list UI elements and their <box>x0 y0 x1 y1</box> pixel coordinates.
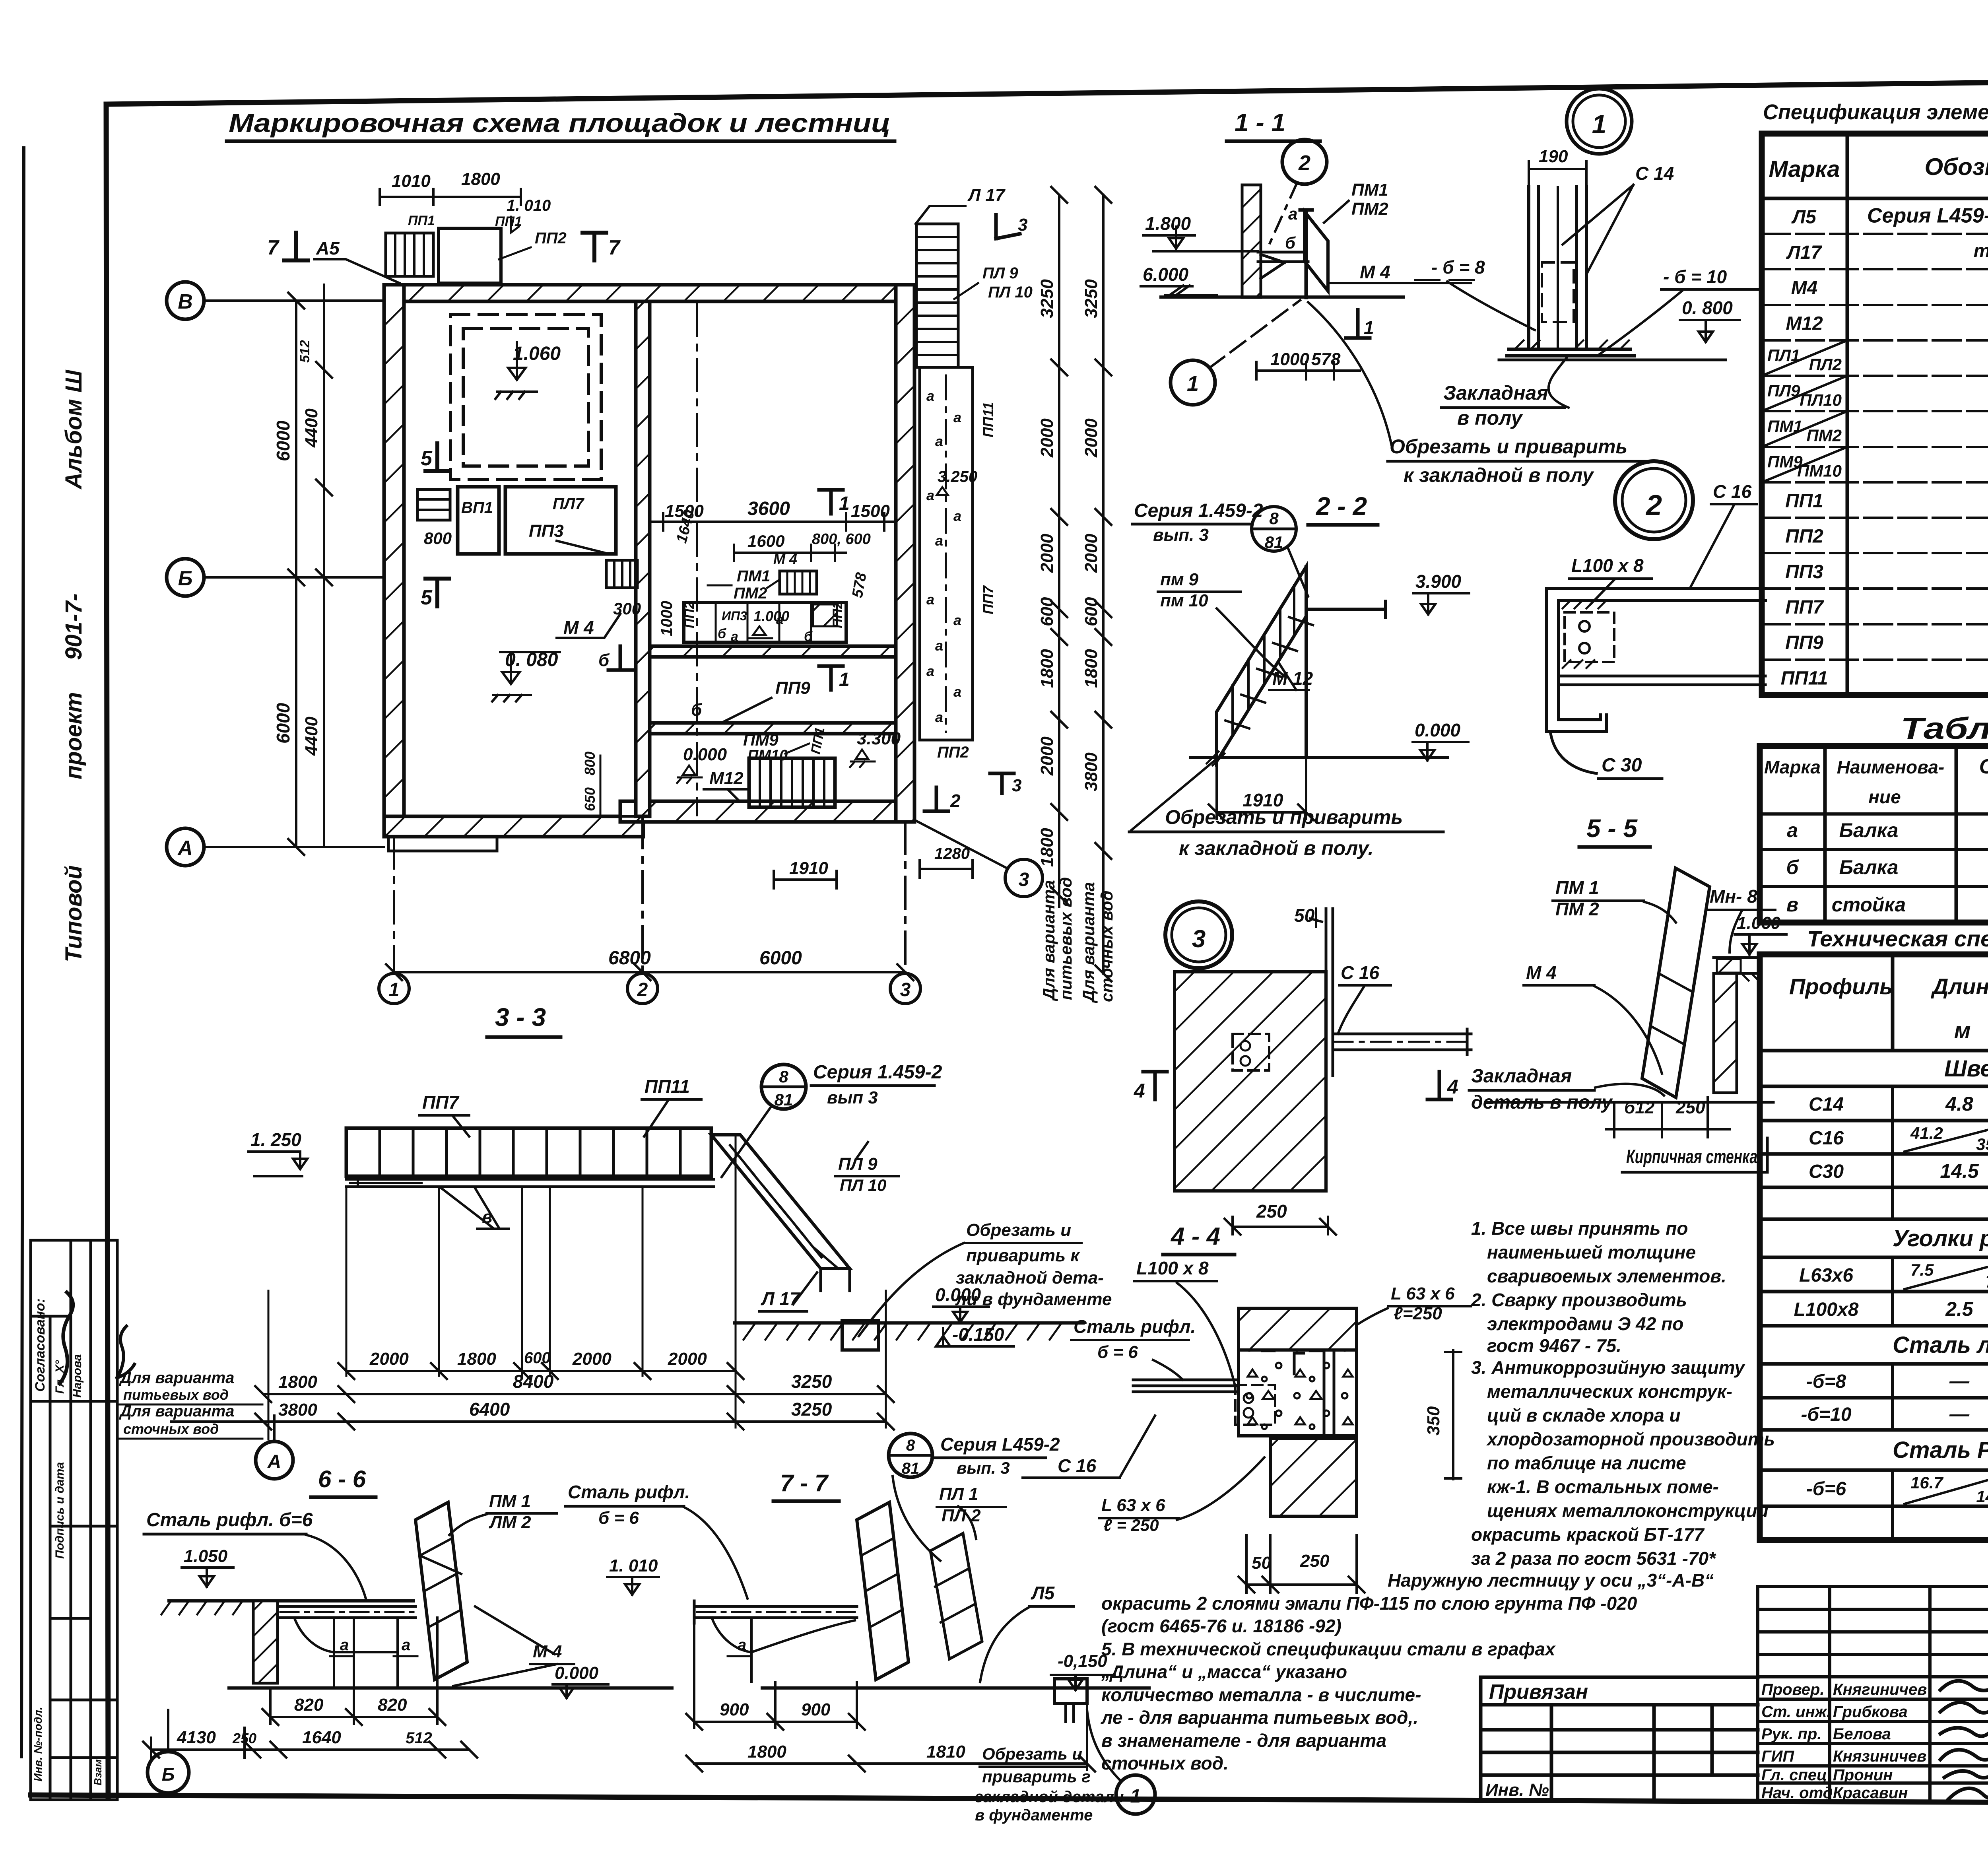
svg-text:а: а <box>738 1636 746 1654</box>
spec table frame <box>1762 134 1988 695</box>
right dim chains <box>1051 187 1067 907</box>
node circle 1 <box>1567 89 1632 154</box>
channel section 5-5 <box>1547 589 1765 732</box>
svg-text:1.000: 1.000 <box>753 608 789 624</box>
svg-text:5. В технической спецификации: 5. В технической спецификации стали в гр… <box>1101 1639 1556 1659</box>
svg-text:Л 17: Л 17 <box>967 185 1006 205</box>
svg-text:1910: 1910 <box>789 859 828 878</box>
bolt box node3 <box>1233 1034 1269 1070</box>
baseline 6-6 <box>229 1686 672 1690</box>
svg-text:С 16: С 16 <box>1341 962 1380 983</box>
svg-text:L100 х 8: L100 х 8 <box>1136 1258 1209 1278</box>
svg-text:3250: 3250 <box>1081 279 1101 318</box>
svg-text:2000: 2000 <box>1037 736 1057 776</box>
concrete block hatched node3 <box>1175 972 1326 1191</box>
grid circle B 6-6 <box>148 1752 189 1793</box>
svg-text:Нарова: Нарова <box>71 1354 84 1398</box>
svg-text:4400: 4400 <box>302 717 321 756</box>
svg-text:4130: 4130 <box>177 1728 216 1747</box>
svg-text:3.900: 3.900 <box>1415 571 1462 592</box>
svg-text:190: 190 <box>1539 147 1568 166</box>
dim row3 3-3 <box>171 1414 894 1430</box>
platform row boxes <box>684 602 846 642</box>
svg-text:1800: 1800 <box>461 169 500 189</box>
svg-text:- б = 10: - б = 10 <box>1663 266 1727 287</box>
bolt box 4-4 <box>1235 1385 1275 1425</box>
svg-text:б: б <box>1285 233 1296 252</box>
svg-text:Сталь рифл. б=6: Сталь рифл. б=6 <box>146 1509 313 1531</box>
svg-text:81: 81 <box>902 1460 920 1477</box>
svg-text:Сталь рифл.: Сталь рифл. <box>568 1482 690 1502</box>
svg-text:2000: 2000 <box>1037 418 1057 458</box>
svg-text:окрасить краской БТ-177: окрасить краской БТ-177 <box>1471 1524 1705 1545</box>
svg-text:ПП9: ПП9 <box>775 678 810 698</box>
svg-text:300: 300 <box>613 599 641 618</box>
svg-text:8: 8 <box>779 1067 788 1086</box>
svg-text:сточных вод: сточных вод <box>123 1421 219 1437</box>
svg-text:ПП1: ПП1 <box>495 214 522 229</box>
svg-text:С 30: С 30 <box>1602 755 1642 776</box>
svg-text:6.000: 6.000 <box>1143 264 1189 285</box>
svg-text:ПП1: ПП1 <box>1785 490 1823 511</box>
railing panels 7-7 <box>857 1502 909 1680</box>
svg-text:600: 600 <box>524 1349 551 1367</box>
svg-text:пм 10: пм 10 <box>1160 591 1208 610</box>
svg-text:м: м <box>1954 1018 1971 1043</box>
svg-text:820: 820 <box>294 1695 324 1715</box>
svg-text:закладной детали: закладной детали <box>975 1788 1124 1806</box>
svg-text:ПМ10: ПМ10 <box>1797 462 1842 480</box>
svg-text:в знаменателе - для вариант: в знаменателе - для варианта <box>1101 1730 1386 1751</box>
svg-text:0.000: 0.000 <box>935 1284 981 1305</box>
svg-text:ГИП: ГИП <box>1761 1748 1794 1765</box>
dims row2 6-6 <box>143 1728 477 1758</box>
baseline 7-7 <box>762 1686 1149 1690</box>
seriya circle 7-7 <box>889 1433 932 1477</box>
svg-text:3.300: 3.300 <box>857 729 901 748</box>
svg-text:Обрезать и: Обрезать и <box>966 1220 1071 1240</box>
svg-text:0.000: 0.000 <box>683 745 727 764</box>
svg-text:Сталь рифл.: Сталь рифл. <box>1074 1316 1196 1337</box>
svg-text:1: 1 <box>389 979 400 1000</box>
svg-text:578: 578 <box>1311 350 1341 369</box>
stair flight 2-2 <box>1217 567 1306 761</box>
corner angle in concrete <box>1294 1353 1304 1374</box>
stamp boxes column lower-left <box>31 1240 117 1800</box>
svg-text:ПП2: ПП2 <box>535 229 567 247</box>
section flag 1 in 1-1 <box>1346 310 1370 338</box>
svg-text:сваривоемых элементов.: сваривоемых элементов. <box>1487 1266 1726 1286</box>
callout circle 3 <box>1005 859 1043 897</box>
svg-text:С 14: С 14 <box>1635 163 1674 184</box>
svg-text:512: 512 <box>297 340 313 363</box>
svg-text:Гл. спец: Гл. спец <box>1761 1766 1827 1784</box>
svg-text:А: А <box>177 837 193 860</box>
svg-text:а: а <box>340 1636 349 1654</box>
dim 1280 <box>920 860 973 878</box>
svg-text:6800: 6800 <box>608 948 651 969</box>
svg-text:Техническая спецификация с: Техническая спецификация стали 3Ст 3 кп … <box>1807 926 1988 951</box>
svg-text:600: 600 <box>1081 597 1101 626</box>
svg-text:б12: б12 <box>1624 1098 1655 1117</box>
svg-text:8400: 8400 <box>513 1371 554 1392</box>
callout circle 2 <box>1282 140 1327 184</box>
svg-text:М 4: М 4 <box>1526 962 1557 983</box>
railing panel detail <box>1642 868 1710 1097</box>
svg-text:2: 2 <box>950 791 961 811</box>
svg-text:Л5: Л5 <box>1791 207 1817 228</box>
axes dash-dot verticals <box>394 304 905 973</box>
interior stair at wall <box>606 560 637 588</box>
svg-text:ЛМ 2: ЛМ 2 <box>489 1513 531 1532</box>
gussets 7-7 <box>712 1618 855 1682</box>
small stair left edge <box>417 489 450 520</box>
foundation box 3-3 <box>842 1321 879 1350</box>
node circle 3 <box>1165 901 1232 968</box>
svg-text:а: а <box>926 663 934 679</box>
svg-text:ПЛ 10: ПЛ 10 <box>988 284 1033 301</box>
post channels node 1 <box>1529 187 1586 349</box>
svg-text:0.000: 0.000 <box>555 1663 599 1683</box>
sheet frame bottom edge <box>31 1795 1988 1804</box>
long leader to note <box>1308 302 1392 445</box>
svg-text:3: 3 <box>1018 215 1027 235</box>
svg-text:1800: 1800 <box>1037 828 1057 867</box>
svg-text:-б=10: -б=10 <box>1801 1404 1851 1425</box>
svg-text:М 4: М 4 <box>773 551 797 567</box>
svg-text:Профиль: Профиль <box>1789 974 1893 999</box>
svg-text:6000: 6000 <box>273 703 293 744</box>
signatures scribbles <box>1940 1681 1988 1799</box>
svg-text:Закладная: Закладная <box>1443 382 1548 404</box>
svg-text:ПП7: ПП7 <box>1785 597 1824 618</box>
svg-text:901-7-: 901-7- <box>61 593 87 660</box>
svg-text:Наружную лестницу у оси „3: Наружную лестницу у оси „3“-А-В“ <box>1388 1570 1714 1591</box>
callout circle 1 7-7 <box>1116 1775 1155 1814</box>
svg-text:ПП2: ПП2 <box>830 601 845 628</box>
concrete block 4-4 <box>1239 1350 1357 1436</box>
foundation box 7-7 <box>1054 1679 1087 1703</box>
svg-text:2000: 2000 <box>572 1349 612 1369</box>
svg-text:ПЛ7: ПЛ7 <box>553 495 584 513</box>
svg-text:ПМ1: ПМ1 <box>1767 417 1803 435</box>
svg-text:7 - 7: 7 - 7 <box>780 1470 829 1496</box>
dims 6-6 <box>262 1680 445 1725</box>
svg-text:600: 600 <box>1037 597 1057 626</box>
svg-text:Обрезать и приварить: Обрезать и приварить <box>1390 435 1627 458</box>
svg-text:1. Все швы принять по: 1. Все швы принять по <box>1471 1218 1688 1239</box>
plan bottom wall right <box>620 801 914 822</box>
svg-text:2. Сварку производить: 2. Сварку производить <box>1471 1290 1687 1310</box>
svg-text:Серия 1.459-2: Серия 1.459-2 <box>813 1062 942 1083</box>
porch step bottom-left <box>388 837 497 851</box>
M4 ladder plan <box>780 571 817 594</box>
projection lines 3-3 <box>268 1137 886 1439</box>
entry dims 1010 1800 <box>380 189 521 205</box>
svg-text:3.250: 3.250 <box>938 468 977 486</box>
signature table <box>1758 1587 1988 1800</box>
svg-text:Серия 1.459-2: Серия 1.459-2 <box>1134 500 1263 521</box>
wall hatched top 4-4 <box>1239 1308 1357 1350</box>
svg-text:8: 8 <box>906 1437 915 1454</box>
svg-text:щениях металлоконструкции: щениях металлоконструкции <box>1487 1500 1769 1521</box>
svg-text:ПЛ 9: ПЛ 9 <box>982 264 1018 282</box>
svg-text:к закладной в полу: к закладной в полу <box>1404 464 1594 486</box>
svg-text:6 - 6: 6 - 6 <box>318 1466 366 1492</box>
svg-text:5: 5 <box>421 586 433 609</box>
base plate node 1 <box>1507 349 1634 356</box>
svg-text:1: 1 <box>839 493 850 514</box>
plan right wall <box>896 285 914 822</box>
svg-text:М12: М12 <box>1786 313 1823 334</box>
svg-text:-б=8: -б=8 <box>1806 1371 1846 1392</box>
deck lines 3-3 <box>346 1179 714 1187</box>
ground 3-3 <box>734 1321 1083 1325</box>
svg-text:ПЛ 1: ПЛ 1 <box>939 1484 978 1504</box>
handwriting scribble at left frame <box>117 1326 134 1378</box>
svg-text:Белова: Белова <box>1833 1725 1891 1743</box>
svg-text:—: — <box>1949 1403 1970 1425</box>
railing panel 1-1 <box>1305 212 1328 291</box>
svg-text:3250: 3250 <box>791 1399 832 1420</box>
svg-text:а: а <box>953 612 961 628</box>
inner room outline <box>404 301 896 816</box>
svg-text:Согласовано:: Согласовано: <box>33 1298 48 1392</box>
svg-text:1. 010: 1. 010 <box>609 1556 658 1575</box>
svg-text:по таблице на листе: по таблице на листе <box>1487 1453 1686 1473</box>
svg-text:1810: 1810 <box>926 1742 965 1762</box>
svg-text:ПП11: ПП11 <box>1781 668 1828 689</box>
deck band 6-6 <box>278 1606 415 1618</box>
svg-text:сточных вод.: сточных вод. <box>1101 1753 1229 1773</box>
svg-text:(гост 6465-76 и. 18186 -92): (гост 6465-76 и. 18186 -92) <box>1101 1616 1342 1636</box>
sections table frame <box>1760 746 1988 923</box>
svg-text:7.0: 7.0 <box>1986 1272 1988 1291</box>
svg-text:М12: М12 <box>709 769 744 788</box>
sheet frame top edge <box>106 76 1988 104</box>
gussets 6-6 <box>294 1618 437 1688</box>
svg-text:гост 9467 - 75.: гост 9467 - 75. <box>1487 1335 1621 1356</box>
svg-text:250: 250 <box>1256 1201 1287 1222</box>
svg-text:Красавин: Красавин <box>1833 1784 1908 1802</box>
dim row1 3-3 <box>338 1363 744 1379</box>
svg-text:Б: Б <box>178 567 193 590</box>
svg-text:L100 х 8: L100 х 8 <box>1571 555 1644 576</box>
svg-text:Наименова-: Наименова- <box>1837 757 1944 777</box>
svg-text:Марка: Марка <box>1769 156 1840 182</box>
svg-text:3800: 3800 <box>278 1400 317 1420</box>
svg-text:ПЛ1: ПЛ1 <box>1767 346 1800 365</box>
svg-text:кж-1. В остальных поме-: кж-1. В остальных поме- <box>1487 1476 1719 1497</box>
post node 3 <box>1326 909 1333 1076</box>
svg-text:35.7: 35.7 <box>1976 1135 1988 1154</box>
svg-text:С 16: С 16 <box>1713 481 1752 502</box>
svg-text:250: 250 <box>232 1730 256 1746</box>
svg-text:Б: Б <box>162 1764 175 1785</box>
svg-text:ПП11: ПП11 <box>645 1076 690 1097</box>
box VP1 <box>458 487 499 554</box>
platform lines 1-1 <box>1258 252 1308 278</box>
svg-text:в фундаменте: в фундаменте <box>975 1806 1093 1824</box>
svg-text:50: 50 <box>1294 905 1315 926</box>
svg-text:М 4: М 4 <box>1360 262 1390 282</box>
corner slab detail <box>1714 958 1759 973</box>
svg-text:а: а <box>926 591 934 608</box>
svg-text:—: — <box>1949 1370 1970 1392</box>
left dim chains <box>288 293 304 855</box>
svg-text:Грибкова: Грибкова <box>1833 1703 1908 1721</box>
svg-text:А: А <box>267 1451 282 1472</box>
svg-text:250: 250 <box>1300 1551 1330 1571</box>
svg-text:ПЛ 10: ПЛ 10 <box>840 1176 886 1195</box>
baseline 2-2 <box>1191 756 1447 759</box>
svg-text:ПМ 1: ПМ 1 <box>1555 877 1599 898</box>
svg-text:Сталь Рифленая гост: Сталь Рифленая гост 8568-77 <box>1893 1437 1988 1463</box>
outside entry platform top-left <box>439 228 501 283</box>
svg-text:ПП2: ПП2 <box>1785 526 1823 547</box>
lower hatched block 4-4 <box>1270 1439 1357 1516</box>
dims 7-7 row2 <box>686 1703 1095 1771</box>
svg-text:2: 2 <box>637 979 648 1000</box>
svg-text:ИП3: ИП3 <box>722 609 747 623</box>
grid circles V B A <box>167 282 204 319</box>
svg-text:-0.150: -0.150 <box>952 1324 1004 1345</box>
svg-text:Для варианта: Для варианта <box>1039 880 1058 1001</box>
svg-text:металлических конструк-: металлических конструк- <box>1487 1381 1732 1402</box>
svg-text:L63х6: L63х6 <box>1799 1265 1853 1286</box>
stair flight 3-3 <box>711 1135 850 1268</box>
svg-text:б = 6: б = 6 <box>598 1508 639 1528</box>
svg-text:Швеллеры - гост 8240-72: Швеллеры - гост 8240-72 <box>1944 1056 1988 1082</box>
steel table row lines <box>1760 1051 1988 1540</box>
svg-text:800: 800 <box>582 752 598 775</box>
svg-text:электродами Э 42 по: электродами Э 42 по <box>1487 1313 1683 1334</box>
svg-text:4: 4 <box>1134 1080 1145 1102</box>
svg-text:3800: 3800 <box>1081 752 1101 791</box>
svg-text:Обрезать и: Обрезать и <box>982 1744 1082 1763</box>
svg-text:„Длина“ и „масса“ указано: „Длина“ и „масса“ указано <box>1101 1661 1347 1682</box>
svg-text:ПЛ2: ПЛ2 <box>1809 355 1842 374</box>
svg-text:а: а <box>935 532 943 549</box>
svg-text:б: б <box>598 651 610 670</box>
svg-text:2 - 2: 2 - 2 <box>1316 492 1367 521</box>
svg-text:деталь в полу: деталь в полу <box>1471 1092 1613 1113</box>
svg-text:проект: проект <box>61 692 87 779</box>
svg-text:ПЛ10: ПЛ10 <box>1800 390 1842 409</box>
svg-text:Ст. инж.: Ст. инж. <box>1761 1703 1831 1721</box>
svg-text:3. Антикоррозийную защиту: 3. Антикоррозийную защиту <box>1471 1357 1745 1378</box>
svg-text:Пронин: Пронин <box>1833 1766 1893 1784</box>
svg-text:6000: 6000 <box>759 948 802 969</box>
svg-text:2000: 2000 <box>1081 534 1101 573</box>
svg-text:1000: 1000 <box>658 601 676 636</box>
svg-text:а: а <box>935 709 943 725</box>
svg-text:Рук. пр.: Рук. пр. <box>1761 1725 1821 1743</box>
svg-text:Кирпичная стенка: Кирпичная стенка <box>1626 1146 1757 1167</box>
svg-text:в полу: в полу <box>1457 407 1523 429</box>
svg-text:Привязан: Привязан <box>1489 1680 1588 1703</box>
svg-text:а: а <box>953 409 961 425</box>
post M12 <box>1305 567 1308 758</box>
svg-text:4400: 4400 <box>302 408 321 448</box>
svg-text:1.800: 1.800 <box>1145 213 1191 234</box>
svg-text:900: 900 <box>801 1700 831 1719</box>
svg-text:ПМ1: ПМ1 <box>737 567 770 585</box>
svg-text:81: 81 <box>775 1090 793 1109</box>
svg-text:Обозначение: Обозначение <box>1924 153 1988 180</box>
svg-text:а: а <box>953 508 961 524</box>
svg-text:1800: 1800 <box>1037 649 1057 688</box>
svg-text:б: б <box>804 629 813 644</box>
svg-text:Балка: Балка <box>1839 856 1899 878</box>
bolted plate 5-5 <box>1565 612 1614 662</box>
svg-text:Уголки равнобокие - гост: Уголки равнобокие - гост 8509-72 <box>1893 1226 1988 1251</box>
svg-text:ПП2: ПП2 <box>682 601 697 628</box>
floor slab 6-6 <box>169 1599 414 1602</box>
svg-text:1600: 1600 <box>747 532 784 550</box>
svg-text:Инв. №-подл.: Инв. №-подл. <box>32 1707 44 1781</box>
svg-text:б: б <box>1786 856 1800 878</box>
dims 7-7 row1 <box>686 1623 865 1730</box>
svg-text:а: а <box>731 629 738 644</box>
pit dashed rectangles <box>450 315 601 480</box>
svg-text:1000: 1000 <box>1270 350 1309 369</box>
svg-text:приварить к: приварить к <box>966 1246 1080 1265</box>
base line detail <box>1487 1101 1773 1104</box>
svg-text:Л 17: Л 17 <box>761 1288 801 1309</box>
big circle 2 right <box>1653 501 1654 502</box>
svg-text:4 - 4: 4 - 4 <box>1170 1223 1220 1250</box>
top beam 2-2 <box>1306 601 1386 617</box>
svg-text:3: 3 <box>1019 869 1029 890</box>
svg-text:Серия L459-2, вып. 2: Серия L459-2, вып. 2 <box>1867 204 1988 227</box>
svg-text:Для варианта: Для варианта <box>1079 882 1098 1003</box>
svg-text:1.060: 1.060 <box>513 343 561 364</box>
svg-text:ПМ2: ПМ2 <box>1351 199 1388 219</box>
svg-text:Таблица сечений: Таблица сечений <box>1901 712 1988 746</box>
svg-text:б: б <box>718 626 726 641</box>
svg-text:Л17: Л17 <box>1786 242 1823 263</box>
svg-text:вып 3: вып 3 <box>827 1088 878 1107</box>
privyazan table <box>1481 1677 1758 1800</box>
embedded plate dashed <box>1542 262 1574 322</box>
svg-text:1: 1 <box>1130 1786 1141 1807</box>
svg-text:вып. 3: вып. 3 <box>957 1459 1010 1477</box>
svg-text:1640: 1640 <box>302 1728 341 1747</box>
svg-text:наименьшей толщине: наименьшей толщине <box>1487 1242 1696 1263</box>
svg-text:3250: 3250 <box>791 1371 832 1392</box>
svg-text:- б = 8: - б = 8 <box>1431 257 1485 278</box>
svg-text:Нач. отд: Нач. отд <box>1761 1784 1833 1802</box>
svg-text:С30: С30 <box>1809 1161 1844 1182</box>
svg-text:пм 9: пм 9 <box>1160 570 1199 589</box>
plan interior wall <box>636 301 650 816</box>
lower beam 5-5 <box>1559 672 1765 690</box>
svg-text:М4: М4 <box>1791 278 1818 299</box>
steel table frame <box>1760 954 1988 1540</box>
svg-text:1. 250: 1. 250 <box>250 1129 301 1150</box>
svg-text:в: в <box>1786 894 1798 916</box>
svg-text:3 - 3: 3 - 3 <box>495 1003 546 1031</box>
svg-text:окрасить 2 слоями эмали ПФ-1: окрасить 2 слоями эмали ПФ-115 по слою г… <box>1101 1593 1637 1614</box>
svg-text:А5: А5 <box>316 238 340 258</box>
svg-text:Сталь листовая - гост: Сталь листовая - гост 82-70 <box>1893 1332 1988 1358</box>
svg-text:1 - 1: 1 - 1 <box>1235 108 1285 137</box>
svg-text:а: а <box>926 487 934 503</box>
svg-text:3250: 3250 <box>1037 279 1057 318</box>
post 1-1 <box>1300 210 1312 297</box>
svg-text:сточных вод: сточных вод <box>1097 891 1116 1002</box>
